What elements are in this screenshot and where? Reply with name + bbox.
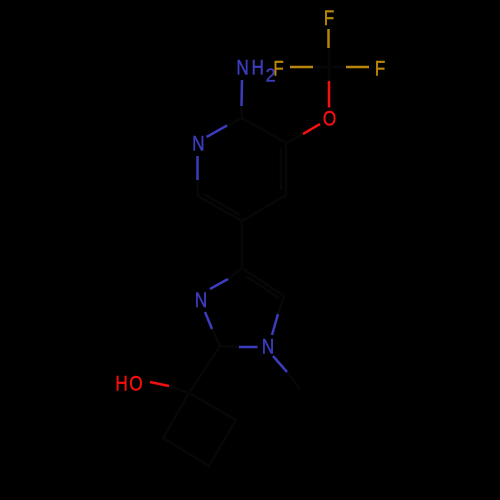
blue bond halves xyxy=(198,80,288,372)
wire O-C3 carbon half xyxy=(286,134,303,143)
wire N3-C2 carbon half xyxy=(212,329,220,346)
wire O-CF3 red half xyxy=(328,81,331,108)
wire C4-C5 pyridine xyxy=(242,195,286,221)
wire CF3-Fleft carbon half xyxy=(313,66,329,69)
wire CF3-Ftop olive half xyxy=(327,29,330,48)
svg-text:O: O xyxy=(129,373,142,396)
svg-text:N: N xyxy=(192,133,204,156)
wire cyclobutane xyxy=(163,393,236,466)
red bond halves xyxy=(150,81,329,386)
wire N3-C4 carbon half xyxy=(228,268,242,279)
wire O-CF3 carbon half xyxy=(328,67,331,83)
atom labels xyxy=(115,7,385,396)
wire NH2-C2 carbon half xyxy=(241,104,242,118)
wire HO-Cq carbon half xyxy=(169,386,189,393)
wire O-C3 red half xyxy=(303,124,320,134)
wire N1-C2 carbon half xyxy=(220,346,240,347)
wire CF3-Ftop carbon half xyxy=(328,48,331,67)
svg-text:N: N xyxy=(195,290,207,313)
svg-text:O: O xyxy=(323,108,336,131)
wire NH2 bond blue half xyxy=(240,80,243,106)
wire N1-C2 blue half xyxy=(239,346,258,349)
svg-text:F: F xyxy=(324,7,335,30)
svg-text:N: N xyxy=(236,57,248,80)
wire C2-C3 pyridine xyxy=(242,118,286,143)
wire pyridine-imidazole link xyxy=(241,221,244,268)
wire C5-C6 pyridine xyxy=(198,196,242,221)
wire CF3-Fright carbon half xyxy=(329,66,346,69)
wire HO-Cq red half xyxy=(150,382,169,386)
svg-text:F: F xyxy=(375,58,386,81)
svg-text:N: N xyxy=(262,336,274,359)
wire N1-CH3 carbon half xyxy=(287,372,300,389)
wire CF3-Fright olive half xyxy=(346,66,369,69)
wire C3=C4 inner xyxy=(280,148,283,190)
olive bond halves xyxy=(290,29,369,67)
wire N1-C2 carbon half xyxy=(227,118,242,126)
wire N1-C6 carbon half xyxy=(196,180,199,196)
wire C5=C6 inner xyxy=(204,194,240,215)
wire N1-C5 carbon half xyxy=(278,296,284,314)
wire N1-CH3 blue half xyxy=(273,356,287,372)
skeleton black bonds xyxy=(163,48,346,466)
wire C4=C5 inner xyxy=(246,276,279,298)
svg-text:H: H xyxy=(115,373,127,396)
wire C4-C5 imidazole xyxy=(242,268,284,296)
wire pyridine N=C2 blue half xyxy=(207,126,228,138)
wire N1-C5 blue half xyxy=(272,314,278,335)
wire N3-C4 blue half xyxy=(210,279,228,289)
wire C3-C4 pyridine xyxy=(285,143,288,195)
wire pyridine N-C6 blue half xyxy=(196,156,199,180)
svg-text:F: F xyxy=(273,58,284,81)
wire CF3-Fleft olive half xyxy=(290,66,313,69)
wire N3=C2 blue half xyxy=(205,312,212,329)
svg-text:H: H xyxy=(252,57,264,80)
wire C2-Cq xyxy=(189,346,220,393)
